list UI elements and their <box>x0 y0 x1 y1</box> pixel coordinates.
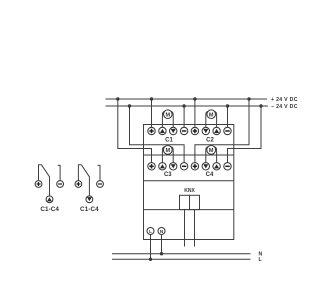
wire -24V drop to C1 - <box>183 106 185 127</box>
switch 1 blade <box>42 165 50 196</box>
svg-text:− 24 V DC: − 24 V DC <box>271 104 298 110</box>
triangle up switch1 <box>47 197 52 201</box>
triangle down C3 <box>171 164 176 168</box>
svg-text:M: M <box>209 112 214 118</box>
KNX connector right square <box>190 195 200 209</box>
junction dot C1- <box>182 104 185 107</box>
wire +24V to C3 + <box>118 99 152 163</box>
minus switch2 <box>98 183 102 185</box>
minus C2 <box>225 130 229 132</box>
motor C3 legs <box>162 147 165 163</box>
triangle down C4 <box>203 164 208 168</box>
minus C3 <box>182 165 186 167</box>
+24V DC bus line <box>106 98 268 100</box>
terminal C2 minus <box>224 127 231 134</box>
junction dot C2+ <box>193 97 196 100</box>
terminal C3 down <box>170 163 177 170</box>
motor M2 circle <box>207 110 216 119</box>
svg-text:C1-C4: C1-C4 <box>40 206 59 213</box>
switch 2 minus terminal <box>97 181 104 188</box>
svg-text:C2: C2 <box>206 137 214 143</box>
junction dot -24 C3 <box>128 104 131 107</box>
wire -24V to C3 - <box>130 106 185 163</box>
svg-text:M: M <box>209 148 214 154</box>
KNX connector left square <box>180 195 190 209</box>
terminal C4 up <box>213 163 220 170</box>
switch 2 plus stem and hook <box>78 165 81 181</box>
divider below C3/C4 section <box>144 180 234 182</box>
svg-text:L: L <box>259 257 263 263</box>
switch 1 minus stem and hook <box>58 165 60 180</box>
divider below KNX section <box>144 209 234 211</box>
svg-text:KNX: KNX <box>184 188 195 194</box>
terminal C4 minus <box>224 163 231 170</box>
triangle up C1 <box>160 129 165 133</box>
junction dot L <box>149 258 152 261</box>
svg-text:C4: C4 <box>206 172 214 178</box>
terminal symbols row1 <box>149 129 229 169</box>
svg-text:C3: C3 <box>164 172 172 178</box>
terminal L circle <box>147 228 154 235</box>
minus C1 <box>182 130 186 132</box>
-24V DC bus line <box>106 105 269 107</box>
terminal C1 down <box>170 127 177 134</box>
switch 1 plus terminal <box>35 181 42 188</box>
switch 2 down output <box>86 196 93 203</box>
terminal C4 plus <box>191 163 198 170</box>
motor C4 legs <box>206 147 209 163</box>
motor M3 circle <box>163 146 172 155</box>
KNX wire 1 <box>184 210 186 247</box>
plus C1 <box>149 130 153 132</box>
switch 2 minus stem and hook <box>98 165 100 180</box>
switch 1 plus stem and hook <box>39 165 42 181</box>
switch 1 up output <box>46 196 53 203</box>
svg-text:C1: C1 <box>165 137 173 143</box>
triangle down C2 <box>203 129 208 133</box>
wire N to N-line <box>161 235 163 254</box>
terminal C1 minus <box>180 127 187 134</box>
minus switch1 <box>58 183 62 185</box>
L line <box>112 258 251 260</box>
switch 2 blade <box>81 165 89 196</box>
terminal C2 plus <box>191 127 198 134</box>
device box outline <box>144 125 234 240</box>
switch 2 plus terminal <box>75 181 82 188</box>
plus switch2 <box>76 183 80 185</box>
wire +24V drop to C2 + <box>194 99 196 127</box>
terminal N circle <box>158 228 165 235</box>
terminal C4 down <box>202 163 209 170</box>
motor M4 circle <box>207 146 216 155</box>
triangle up C4 <box>214 164 219 168</box>
svg-text:M: M <box>166 112 171 118</box>
switch 1 minus terminal <box>57 181 64 188</box>
triangle up C3 <box>160 164 165 168</box>
terminal C2 up <box>213 127 220 134</box>
svg-text:L: L <box>149 229 152 234</box>
motor M1 circle <box>164 110 173 119</box>
wire +24V drop to C1 + <box>151 99 153 127</box>
terminal C2 down <box>202 127 209 134</box>
triangle up C2 <box>214 129 219 133</box>
junction dot +24 C4 <box>247 97 250 100</box>
svg-text:M: M <box>166 148 171 154</box>
junction dot C2- <box>226 104 229 107</box>
plus switch1 <box>37 183 41 185</box>
wire L to L-line <box>150 235 152 260</box>
terminal C3 minus <box>180 163 187 170</box>
junction dot +24 C3 <box>116 97 119 100</box>
motor C2 legs <box>206 111 209 127</box>
KNX wire 2 <box>194 210 196 247</box>
divider below C1/C2 section <box>144 154 234 156</box>
junction dot N <box>160 252 163 255</box>
plus C2 <box>193 130 197 132</box>
triangle down switch2 <box>87 197 92 201</box>
wire -24V drop to C2 - <box>227 106 229 127</box>
plus C4 <box>193 165 197 167</box>
N line <box>112 253 251 255</box>
terminal C3 up <box>159 163 166 170</box>
terminal C1 plus <box>148 127 155 134</box>
svg-text:C1-C4: C1-C4 <box>80 206 99 213</box>
triangle down C1 <box>171 129 176 133</box>
terminal C3 plus <box>148 163 155 170</box>
plus C3 <box>149 165 153 167</box>
svg-text:+ 24 V DC: + 24 V DC <box>271 97 298 103</box>
motor C1 legs <box>162 111 165 127</box>
minus C4 <box>225 165 229 167</box>
junction dot C1+ <box>150 97 153 100</box>
junction dot -24 C4 <box>259 104 262 107</box>
terminal C1 up <box>159 127 166 134</box>
wire +24V to C4 + <box>195 99 249 163</box>
wire -24V to C4 - <box>228 106 262 163</box>
